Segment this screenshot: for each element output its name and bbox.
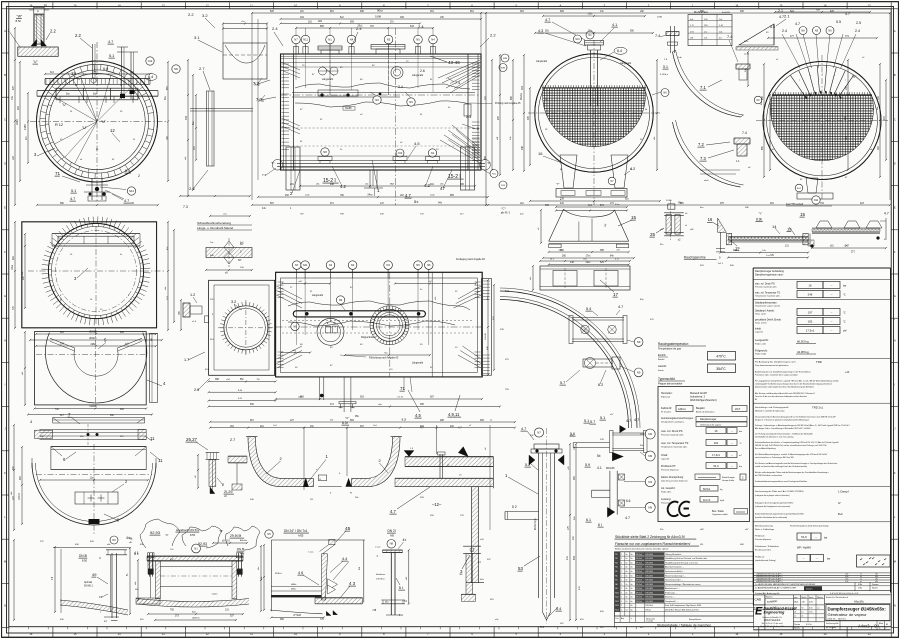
- svg-text:Durchsetzung der Platte nach A: Durchsetzung der Platte nach Art. 9 DGRL…: [755, 490, 804, 493]
- svg-text:x2.5x: x2.5x: [744, 54, 750, 56]
- svg-text:Température de gaz: Température de gaz: [658, 347, 682, 351]
- svg-text:Name: Name: [872, 588, 879, 590]
- svg-text:DIN 2635: DIN 2635: [645, 558, 653, 560]
- svg-text:alle Rl. 3: alle Rl. 3: [501, 212, 511, 215]
- svg-text:6.6: 6.6: [103, 67, 108, 71]
- svg-text:x12x: x12x: [588, 14, 594, 16]
- svg-text:1x: 1x: [801, 612, 803, 614]
- svg-text:7.2: 7.2: [698, 142, 704, 147]
- svg-text:7.3: 7.3: [262, 173, 267, 177]
- svg-text:7.4: 7.4: [727, 35, 732, 39]
- svg-text:4x: 4x: [626, 588, 628, 590]
- svg-text:"W": "W": [219, 530, 223, 533]
- svg-text:(wiederkehrende Prüfung): (wiederkehrende Prüfung): [755, 560, 776, 562]
- svg-text:M: M: [4, 559, 6, 563]
- svg-text:A: A: [37, 9, 39, 13]
- svg-text:(module d’évaluation de la con: (module d’évaluation de la conformité): [755, 516, 787, 519]
- svg-text:DIN 2635: DIN 2635: [645, 562, 653, 564]
- svg-text:4.4: 4.4: [342, 557, 347, 561]
- svg-text:5x: 5x: [626, 558, 628, 560]
- svg-text:4 6: 4 6: [298, 571, 303, 575]
- svg-text:Alle Stutzen mit Ausnahme Ansc: Alle Stutzen mit Ausnahme Anschluß nach …: [755, 392, 816, 395]
- svg-text:Entleerung / ...: Entleerung / ...: [665, 591, 678, 594]
- svg-text:Fa=7750 verteilt: Fa=7750 verteilt: [786, 203, 804, 206]
- svg-text:4,7: 4,7: [390, 509, 396, 514]
- svg-text:N9: N9: [339, 298, 343, 302]
- svg-text:13: 13: [71, 71, 76, 76]
- svg-text:N14: N14: [129, 189, 134, 193]
- svg-text:Temp. entrée: Temp. entrée: [755, 322, 768, 325]
- svg-text:5.1: 5.1: [109, 54, 114, 58]
- svg-text:max. zul. Druck PS:: max. zul. Druck PS:: [755, 283, 776, 286]
- svg-text:A9x-Ex: A9x-Ex: [240, 539, 248, 542]
- svg-text:°C: °C: [843, 321, 846, 323]
- svg-text:Vorgesch. f. Stutzen d. spätes: Vorgesch. f. Stutzen d. spätestens Dampf…: [755, 419, 809, 422]
- svg-text:6x: 6x: [631, 571, 633, 573]
- svg-text:5.4: 5.4: [586, 307, 591, 311]
- svg-text:N7: N7: [295, 263, 299, 267]
- svg-text:5.2: 5.2: [525, 463, 530, 467]
- svg-text:v.Bl.: v.Bl.: [801, 602, 805, 604]
- svg-text:Betriebsanweisung:: Betriebsanweisung:: [755, 525, 774, 528]
- svg-text:47: 47: [440, 186, 445, 191]
- svg-text:N8: N8: [323, 150, 327, 154]
- svg-text:Konf. 9x8 Dampfstutzen Übg.Fla: Konf. 9x8 Dampfstutzen Übg.Flansch DN2I: [665, 604, 702, 607]
- svg-text:6x: 6x: [631, 584, 633, 586]
- svg-text:N: N: [894, 604, 896, 608]
- svg-text:Pression maximale adm.: Pression maximale adm.: [661, 434, 684, 437]
- svg-text:5.7: 5.7: [590, 420, 595, 424]
- svg-text:182: 182: [808, 319, 813, 323]
- svg-text:N: N: [4, 604, 6, 608]
- svg-text:x4: x4: [794, 612, 796, 614]
- svg-text:D: D: [4, 162, 6, 166]
- svg-text:"X": "X": [487, 161, 491, 165]
- svg-text:(catégorie de l’équipement sou: (catégorie de l’équipement sous pression…: [755, 505, 790, 508]
- svg-text:"U": "U": [82, 126, 88, 130]
- svg-text:Température maximale adm.: Température maximale adm.: [755, 295, 781, 298]
- svg-text:7.1: 7.1: [700, 85, 706, 90]
- svg-text:"W": "W": [17, 15, 23, 19]
- svg-text:x.9x: x.9x: [845, 581, 848, 583]
- svg-text:vorübergegriff. Größenbeanspru: vorübergegriff. Größenbeanspruchungsschu…: [755, 383, 832, 386]
- svg-text:8.55: 8.55: [190, 533, 196, 537]
- svg-text:43-46: 43-46: [448, 60, 460, 65]
- svg-text:1 Dampf: 1 Dampf: [838, 490, 849, 494]
- svg-text:"U": "U": [62, 103, 67, 107]
- svg-text:H: H: [894, 338, 896, 342]
- svg-text:DN 2x5: DN 2x5: [636, 588, 642, 590]
- svg-text:IV: IV: [838, 501, 841, 505]
- svg-text:Kategorie des Druckgeräts gemä: Kategorie des Druckgeräts gemäß DGRL:: [755, 502, 794, 505]
- svg-text:max. zul. Druck PS:: max. zul. Druck PS:: [661, 430, 683, 433]
- svg-text:A: A: [4, 29, 6, 33]
- svg-text:53: 53: [518, 566, 523, 571]
- svg-text:N9: N9: [615, 588, 617, 590]
- svg-text:A: A: [894, 29, 896, 33]
- svg-text:2.7: 2.7: [230, 438, 235, 442]
- svg-text:N5: N5: [267, 532, 271, 536]
- svg-text:Wasserstandsbegr. / Électrodes: Wasserstandsbegr. / Électrodes de niveau: [665, 583, 700, 586]
- svg-text:1: 1: [621, 605, 622, 607]
- svg-text:Rauchgastemperatur:: Rauchgastemperatur:: [658, 342, 689, 346]
- svg-text:15: 15: [800, 212, 806, 217]
- svg-text:"Y": "Y": [758, 212, 762, 216]
- svg-text:5.4: 5.4: [556, 607, 561, 611]
- svg-text:8.5I: 8.5I: [342, 421, 348, 425]
- svg-text:5 2: 5 2: [512, 505, 517, 509]
- svg-text:(N° du plan): (N° du plan): [826, 627, 836, 629]
- svg-text:N5: N5: [615, 571, 617, 573]
- svg-text:1: 1: [621, 610, 622, 612]
- svg-text:Stückliste siehe Blatt 2 Zeich: Stückliste siehe Blatt 2 Zeichnung Nr A4…: [615, 535, 685, 539]
- svg-text:E: E: [755, 606, 763, 618]
- svg-text:Klöpperböden: Klöpperböden: [361, 336, 376, 339]
- svg-text:Année de fabrication: Année de fabrication: [696, 411, 714, 414]
- svg-text:12: 12: [110, 128, 115, 133]
- svg-text:DIN 2635: DIN 2635: [645, 584, 653, 586]
- svg-text:5 I: 5 I: [399, 585, 403, 590]
- svg-text:Austritt:: Austritt:: [658, 364, 667, 368]
- svg-text:1.2: 1.2: [190, 293, 195, 297]
- svg-text:R 12: R 12: [55, 123, 63, 127]
- svg-text:DIN 2635: DIN 2635: [645, 575, 653, 577]
- svg-text:Typenschild: Typenschild: [658, 377, 675, 381]
- svg-text:N13: N13: [615, 605, 618, 607]
- svg-text:17xx: 17xx: [586, 256, 592, 258]
- svg-text:Ø20xx: Ø20xx: [89, 337, 97, 340]
- svg-text:4.3: 4.3: [538, 29, 543, 33]
- svg-text:5.1: 5.1: [600, 416, 605, 420]
- svg-text:x: x: [822, 74, 823, 76]
- svg-text:N8: N8: [615, 584, 617, 586]
- svg-text:"U": "U": [101, 120, 107, 124]
- svg-text:N4: N4: [351, 263, 355, 267]
- svg-text:Ausführung der zul. Dampfleist: Ausführung der zul. Dampfleistungsmenge …: [755, 371, 811, 374]
- svg-text:N11: N11: [615, 597, 618, 599]
- svg-text:30x85: 30x85: [345, 107, 352, 110]
- svg-text:5.8M: 5.8M: [375, 15, 381, 19]
- svg-text:5.1: 5.1: [71, 189, 76, 193]
- svg-text:4.7: 4.7: [618, 305, 623, 309]
- svg-text:G: G: [4, 294, 6, 298]
- svg-text:6x: 6x: [631, 567, 633, 569]
- svg-text:K: K: [894, 471, 896, 475]
- svg-text:3x: 3x: [626, 580, 628, 582]
- svg-text:Leergewicht:: Leergewicht:: [755, 339, 769, 342]
- svg-text:DN 8I: DN 8I: [237, 547, 244, 551]
- svg-text:N11: N11: [814, 199, 819, 202]
- svg-text:Sattdampf. Austritt:: Sattdampf. Austritt:: [755, 310, 775, 313]
- svg-text:x8I: x8I: [617, 250, 620, 252]
- svg-text:N11: N11: [303, 38, 308, 42]
- svg-text:19xx: 19xx: [11, 264, 14, 270]
- svg-text:Voraussetzend durch Anschweißu: Voraussetzend durch Anschweißung gemäß n…: [755, 416, 836, 419]
- svg-text:N7: N7: [294, 38, 298, 42]
- svg-text:ND: ND: [174, 67, 178, 71]
- svg-text:2.2: 2.2: [490, 33, 496, 38]
- svg-text:Festlegung nach Angabe A5: Festlegung nach Angabe A5: [456, 258, 485, 261]
- svg-text:Fabrik-Nr:: Fabrik-Nr:: [661, 407, 672, 410]
- svg-text:Füllvolumen / Füllmedium:: Füllvolumen / Füllmedium:: [755, 546, 780, 548]
- svg-text:x: x: [810, 75, 811, 77]
- svg-text:8.50: 8.50: [82, 559, 88, 563]
- svg-text:N3: N3: [387, 38, 391, 42]
- svg-text:4.1: 4.1: [597, 466, 602, 470]
- svg-text:N:O: N:O: [505, 290, 509, 293]
- svg-text:1: 1: [621, 588, 622, 590]
- svg-text:Fe500N: Fe500N: [722, 12, 730, 14]
- svg-text:4.9x: 4.9x: [809, 607, 813, 609]
- svg-text:Tel.: 0 25 x1 / 9 4x xx-0: Tel.: 0 25 x1 / 9 4x xx-0: [761, 623, 783, 625]
- svg-text:Reserve / ...: Reserve / ...: [665, 596, 676, 599]
- svg-text:Speisewasser(Edst) / ...: Speisewasser(Edst) / ...: [665, 570, 685, 573]
- svg-text:16: 16: [538, 151, 543, 156]
- svg-text:8.5c: 8.5c: [16, 19, 22, 23]
- svg-text:Für Auslegung des Dampferzeuge: Für Auslegung des Dampferzeugers nach:: [755, 361, 796, 364]
- svg-text:TRD: TRD: [816, 360, 822, 364]
- svg-text:Längsnaht: Längsnaht: [322, 78, 334, 81]
- svg-text:DN 2x5: DN 2x5: [636, 597, 642, 599]
- svg-text:Baujahr:: Baujahr:: [696, 407, 706, 410]
- svg-text:B: B: [4, 73, 6, 77]
- svg-text:5x: 5x: [626, 575, 628, 577]
- svg-text:x: x: [631, 618, 632, 620]
- svg-text:4.5: 4.5: [414, 141, 420, 146]
- svg-text:Entrée: Entrée: [658, 358, 665, 361]
- svg-text:6.4: 6.4: [617, 49, 622, 53]
- svg-text:6.1: 6.1: [586, 518, 591, 522]
- svg-text:Pression d’épreuve: Pression d’épreuve: [661, 469, 680, 472]
- svg-text:A!55: A!55: [298, 534, 304, 538]
- svg-text:60°: 60°: [238, 259, 242, 262]
- svg-text:Rauchgasrohre: Rauchgasrohre: [684, 256, 706, 260]
- svg-text:Schutzmaßnahmen der Inhalts- u: Schutzmaßnahmen der Inhalts- u. Dampfsch…: [755, 441, 839, 444]
- svg-text:x9x: x9x: [875, 581, 878, 583]
- svg-text:4,5: 4,5: [415, 413, 421, 418]
- svg-text:"Y": "Y": [556, 182, 560, 186]
- svg-text:1: 1: [377, 188, 380, 193]
- svg-text:6x: 6x: [631, 601, 633, 603]
- svg-text:±9 I! 9 I: ±9 I! 9 I: [222, 540, 230, 543]
- svg-text:ventile zu beachten/der zuläss: ventile zu beachten/der zulässige Druck …: [755, 465, 807, 468]
- svg-text:Blatt: Blatt: [879, 622, 883, 625]
- svg-text:2.3: 2.3: [466, 115, 471, 119]
- svg-text:Ø139.7x(4): Ø139.7x(4): [535, 518, 537, 530]
- svg-text:max. zul. Temperatur TS:: max. zul. Temperatur TS:: [755, 292, 781, 295]
- svg-text:66,5x1: 66,5x1: [703, 488, 711, 491]
- svg-text:6x: 6x: [631, 610, 633, 612]
- svg-text:N19: N19: [575, 39, 580, 41]
- svg-text:N3: N3: [615, 562, 617, 564]
- svg-text:29,9I,9I: 29,9I,9I: [230, 534, 241, 538]
- svg-text:Organisme notifié: Organisme notifié: [712, 513, 729, 516]
- svg-text:Datum: Datum: [806, 588, 813, 591]
- svg-text:Herstellungs- und Prüfungsgemä: Herstellungs- und Prüfungsgemäß:: [755, 406, 789, 409]
- svg-text:24x6 t/h – 16x9 9.c: 24x6 t/h – 16x9 9.c: [828, 618, 847, 621]
- svg-text:4 3: 4 3: [349, 581, 356, 586]
- svg-text:4.1: 4.1: [612, 23, 617, 27]
- svg-text:1: 1: [621, 571, 622, 573]
- svg-text:O20x0: O20x0: [89, 405, 97, 408]
- svg-text:N14: N14: [615, 610, 618, 612]
- svg-text:Fax: 0 25 x1 / 9 4x xx-19: Fax: 0 25 x1 / 9 4x xx-19: [761, 626, 785, 628]
- svg-text:bar: bar: [824, 537, 828, 540]
- svg-text:4x: 4x: [626, 597, 628, 599]
- svg-text:7.2: 7.2: [253, 81, 259, 86]
- svg-text:Prüfungs-, Vorbereitungs- u. A: Prüfungs-, Vorbereitungs- u. Abnahmeprüf…: [755, 424, 850, 427]
- svg-text:51,9: 51,9: [801, 535, 807, 539]
- svg-text:N7: N7: [537, 431, 541, 435]
- svg-text:Dampferzeugerraum nach:: Dampferzeugerraum nach:: [755, 274, 784, 277]
- svg-text:N7B: N7B: [503, 58, 508, 60]
- svg-text:Groupe fluide: Groupe fluide: [722, 480, 735, 482]
- svg-text:C xxx: C xxx: [308, 552, 314, 554]
- svg-text:17,3x1: 17,3x1: [712, 453, 720, 457]
- svg-text:"C": "C": [345, 416, 349, 420]
- svg-text:1: 1: [621, 554, 622, 556]
- svg-text:DIN EN 2x2 (x4): 9xP DIN 4x4 (: DIN EN 2x2 (x4): 9xP DIN 4x4 (9x) und de…: [755, 444, 827, 447]
- svg-text:1: 1: [621, 601, 622, 603]
- svg-text:B+F: B+F: [838, 512, 843, 516]
- svg-text:6x: 6x: [631, 588, 633, 590]
- svg-text:J77A±8: J77A±8: [293, 614, 301, 617]
- svg-text:4.7: 4.7: [795, 22, 800, 26]
- svg-text:°C: °C: [739, 443, 742, 445]
- svg-text:479°C: 479°C: [716, 355, 726, 359]
- svg-text:2.4 I3: 2.4 I3: [397, 397, 403, 399]
- svg-text:Ben. Stelle:: Ben. Stelle:: [712, 510, 725, 513]
- svg-text:4 1: 4 1: [134, 552, 139, 556]
- svg-text:Flansche nur von zugelassenen: Flansche nur von zugelassenen Flanschher…: [615, 542, 690, 546]
- svg-text:A!B: A!B: [390, 535, 394, 538]
- svg-text:6x: 6x: [631, 592, 633, 594]
- svg-text:N7B: N7B: [501, 67, 506, 69]
- svg-text:G: G: [894, 294, 896, 298]
- svg-text:(catégorie de la plaque selon: (catégorie de la plaque selon la directi…: [755, 494, 790, 497]
- svg-text:6.2: 6.2: [598, 383, 603, 387]
- svg-text:14xx: 14xx: [92, 70, 98, 74]
- svg-text:N1: N1: [328, 38, 332, 42]
- svg-text:Pos: Pos: [616, 618, 619, 620]
- svg-text:Pression maximale adm.: Pression maximale adm.: [755, 287, 777, 289]
- svg-text:Für Werkstoffbescheinigung u.: Für Werkstoffbescheinigung u. zusätzl. P…: [755, 453, 827, 456]
- svg-text:Prüfdruck:: Prüfdruck:: [755, 535, 765, 538]
- svg-text:2.4: 2.4: [782, 29, 787, 33]
- svg-text:dm³: dm³: [843, 329, 847, 332]
- svg-text:Datum: Datum: [794, 623, 800, 626]
- svg-text:71: 71: [400, 386, 406, 391]
- svg-text:1: 1: [621, 597, 622, 599]
- svg-text:Fabricant: Fabricant: [661, 396, 671, 399]
- svg-text:H: H: [4, 338, 6, 342]
- svg-text:2.6: 2.6: [420, 69, 425, 73]
- svg-text:xx: xx: [794, 616, 796, 618]
- svg-text:2 suite(s): 2 suite(s): [646, 620, 653, 623]
- svg-text:16: 16: [708, 217, 713, 222]
- svg-text:N11: N11: [303, 263, 308, 267]
- svg-text:N1: N1: [615, 554, 617, 556]
- svg-text:x: x: [845, 80, 846, 82]
- svg-text:DN 2x5: DN 2x5: [636, 584, 642, 586]
- svg-text:DN 2x5: DN 2x5: [636, 575, 642, 577]
- svg-text:Füllgewicht:: Füllgewicht:: [755, 350, 768, 353]
- svg-text:A4xx3 – 9 I: A4xx3 – 9 I: [858, 624, 879, 629]
- svg-text:1.7I: 1.7I: [690, 25, 694, 27]
- svg-text:4.7: 4.7: [779, 15, 784, 19]
- svg-text:geschätzte Drehfl. Eintritt:: geschätzte Drehfl. Eintritt:: [755, 319, 782, 322]
- svg-text:Date de la pression d’épreuve: Date de la pression d’épreuve: [661, 480, 688, 483]
- svg-text:5x: 5x: [626, 562, 628, 564]
- svg-text:Der Behälter ist allerseits m.: Der Behälter ist allerseits m. 1x2 mm zu…: [755, 436, 793, 439]
- svg-text:Température vapeur saturée: Température vapeur saturée: [755, 305, 781, 308]
- svg-text:2.2: 2.2: [50, 29, 56, 34]
- svg-text:N1: N1: [431, 151, 435, 155]
- svg-text:2.2: 2.2: [188, 12, 194, 17]
- svg-text:449xO Steinfurt: 449xO Steinfurt: [764, 619, 781, 622]
- svg-text:Stutzentabelle / Tableau de ma: Stutzentabelle / Tableau de manches: [657, 624, 711, 628]
- svg-text:x1: x1: [801, 616, 803, 618]
- svg-text:N9: N9: [637, 370, 641, 374]
- svg-text:Konformitätsbewertungsverfahre: Konformitätsbewertungsverfahren nach Dru…: [755, 480, 807, 483]
- svg-text:4,9,11: 4,9,11: [448, 412, 460, 417]
- svg-text:max. zul. Temperatur TS:: max. zul. Temperatur TS:: [661, 442, 689, 445]
- svg-text:4.7: 4.7: [124, 199, 129, 203]
- svg-text:DN 24"Bl.2 Flansch B/Ø 16211-1: DN 24"Bl.2 Flansch B/Ø 16211-15-P.9xx: [665, 610, 699, 612]
- svg-text:16: 16: [808, 283, 812, 287]
- svg-text:DIN 2635: DIN 2635: [645, 571, 653, 573]
- svg-text:1: 1: [621, 567, 622, 569]
- svg-text:x4N: x4N: [318, 20, 323, 23]
- svg-text:Tous les N de vue des directiv: Tous les N de vue des directives fabriqu…: [755, 395, 808, 398]
- svg-text:Capacité: Capacité: [661, 458, 670, 461]
- svg-text:44,9I5 kg: 44,9I5 kg: [797, 350, 809, 354]
- svg-text:Matériel et contrôle de fabric: Matériel et contrôle de fabrication: [755, 410, 785, 413]
- svg-text:L3+HD: L3+HD: [485, 333, 487, 340]
- svg-text:6.6: 6.6: [626, 499, 631, 503]
- svg-text:1: 1: [621, 558, 622, 560]
- svg-text:x.x: x.x: [817, 607, 819, 609]
- svg-text:E: E: [4, 206, 6, 210]
- svg-text:Etat de la première: Etat de la première: [755, 548, 771, 551]
- svg-text:"U": "U": [165, 534, 169, 537]
- svg-text:N8: N8: [390, 542, 394, 546]
- svg-text:M16x45: M16x45: [606, 467, 615, 470]
- svg-text:N5: N5: [416, 38, 420, 42]
- svg-text:WP / NaWM: WP / NaWM: [797, 547, 811, 550]
- svg-text:bar: bar: [827, 558, 831, 561]
- svg-text:DN 2x5: DN 2x5: [636, 554, 642, 556]
- svg-text:2: 2: [621, 575, 622, 577]
- svg-text:19: 19: [787, 227, 792, 232]
- svg-text:Werks u. Prüfbuchlage: Werks u. Prüfbuchlage: [755, 528, 774, 531]
- svg-text:DN 24" / DN 7x1: DN 24" / DN 7x1: [284, 529, 308, 533]
- svg-text:"B": "B": [326, 323, 329, 325]
- svg-text:D: D: [894, 162, 896, 166]
- svg-text:3.2: 3.2: [231, 300, 236, 304]
- svg-text:3.1: 3.1: [194, 35, 200, 40]
- svg-text:4.13/b.a: 4.13/b.a: [660, 74, 669, 76]
- svg-text:Anz: Anz: [621, 617, 624, 620]
- svg-text:9x: 9x: [801, 607, 803, 609]
- svg-text:DIN 2635: DIN 2635: [645, 567, 653, 569]
- svg-text:Poids à vide: Poids à vide: [755, 343, 767, 345]
- svg-text:5.5: 5.5: [836, 20, 841, 24]
- svg-text:N9: N9: [409, 100, 413, 104]
- svg-text:N3: N3: [386, 263, 390, 267]
- svg-text:Pour dimensionnement du généra: Pour dimensionnement du générateur: [755, 364, 789, 367]
- svg-text:DIN 2635: DIN 2635: [645, 592, 653, 594]
